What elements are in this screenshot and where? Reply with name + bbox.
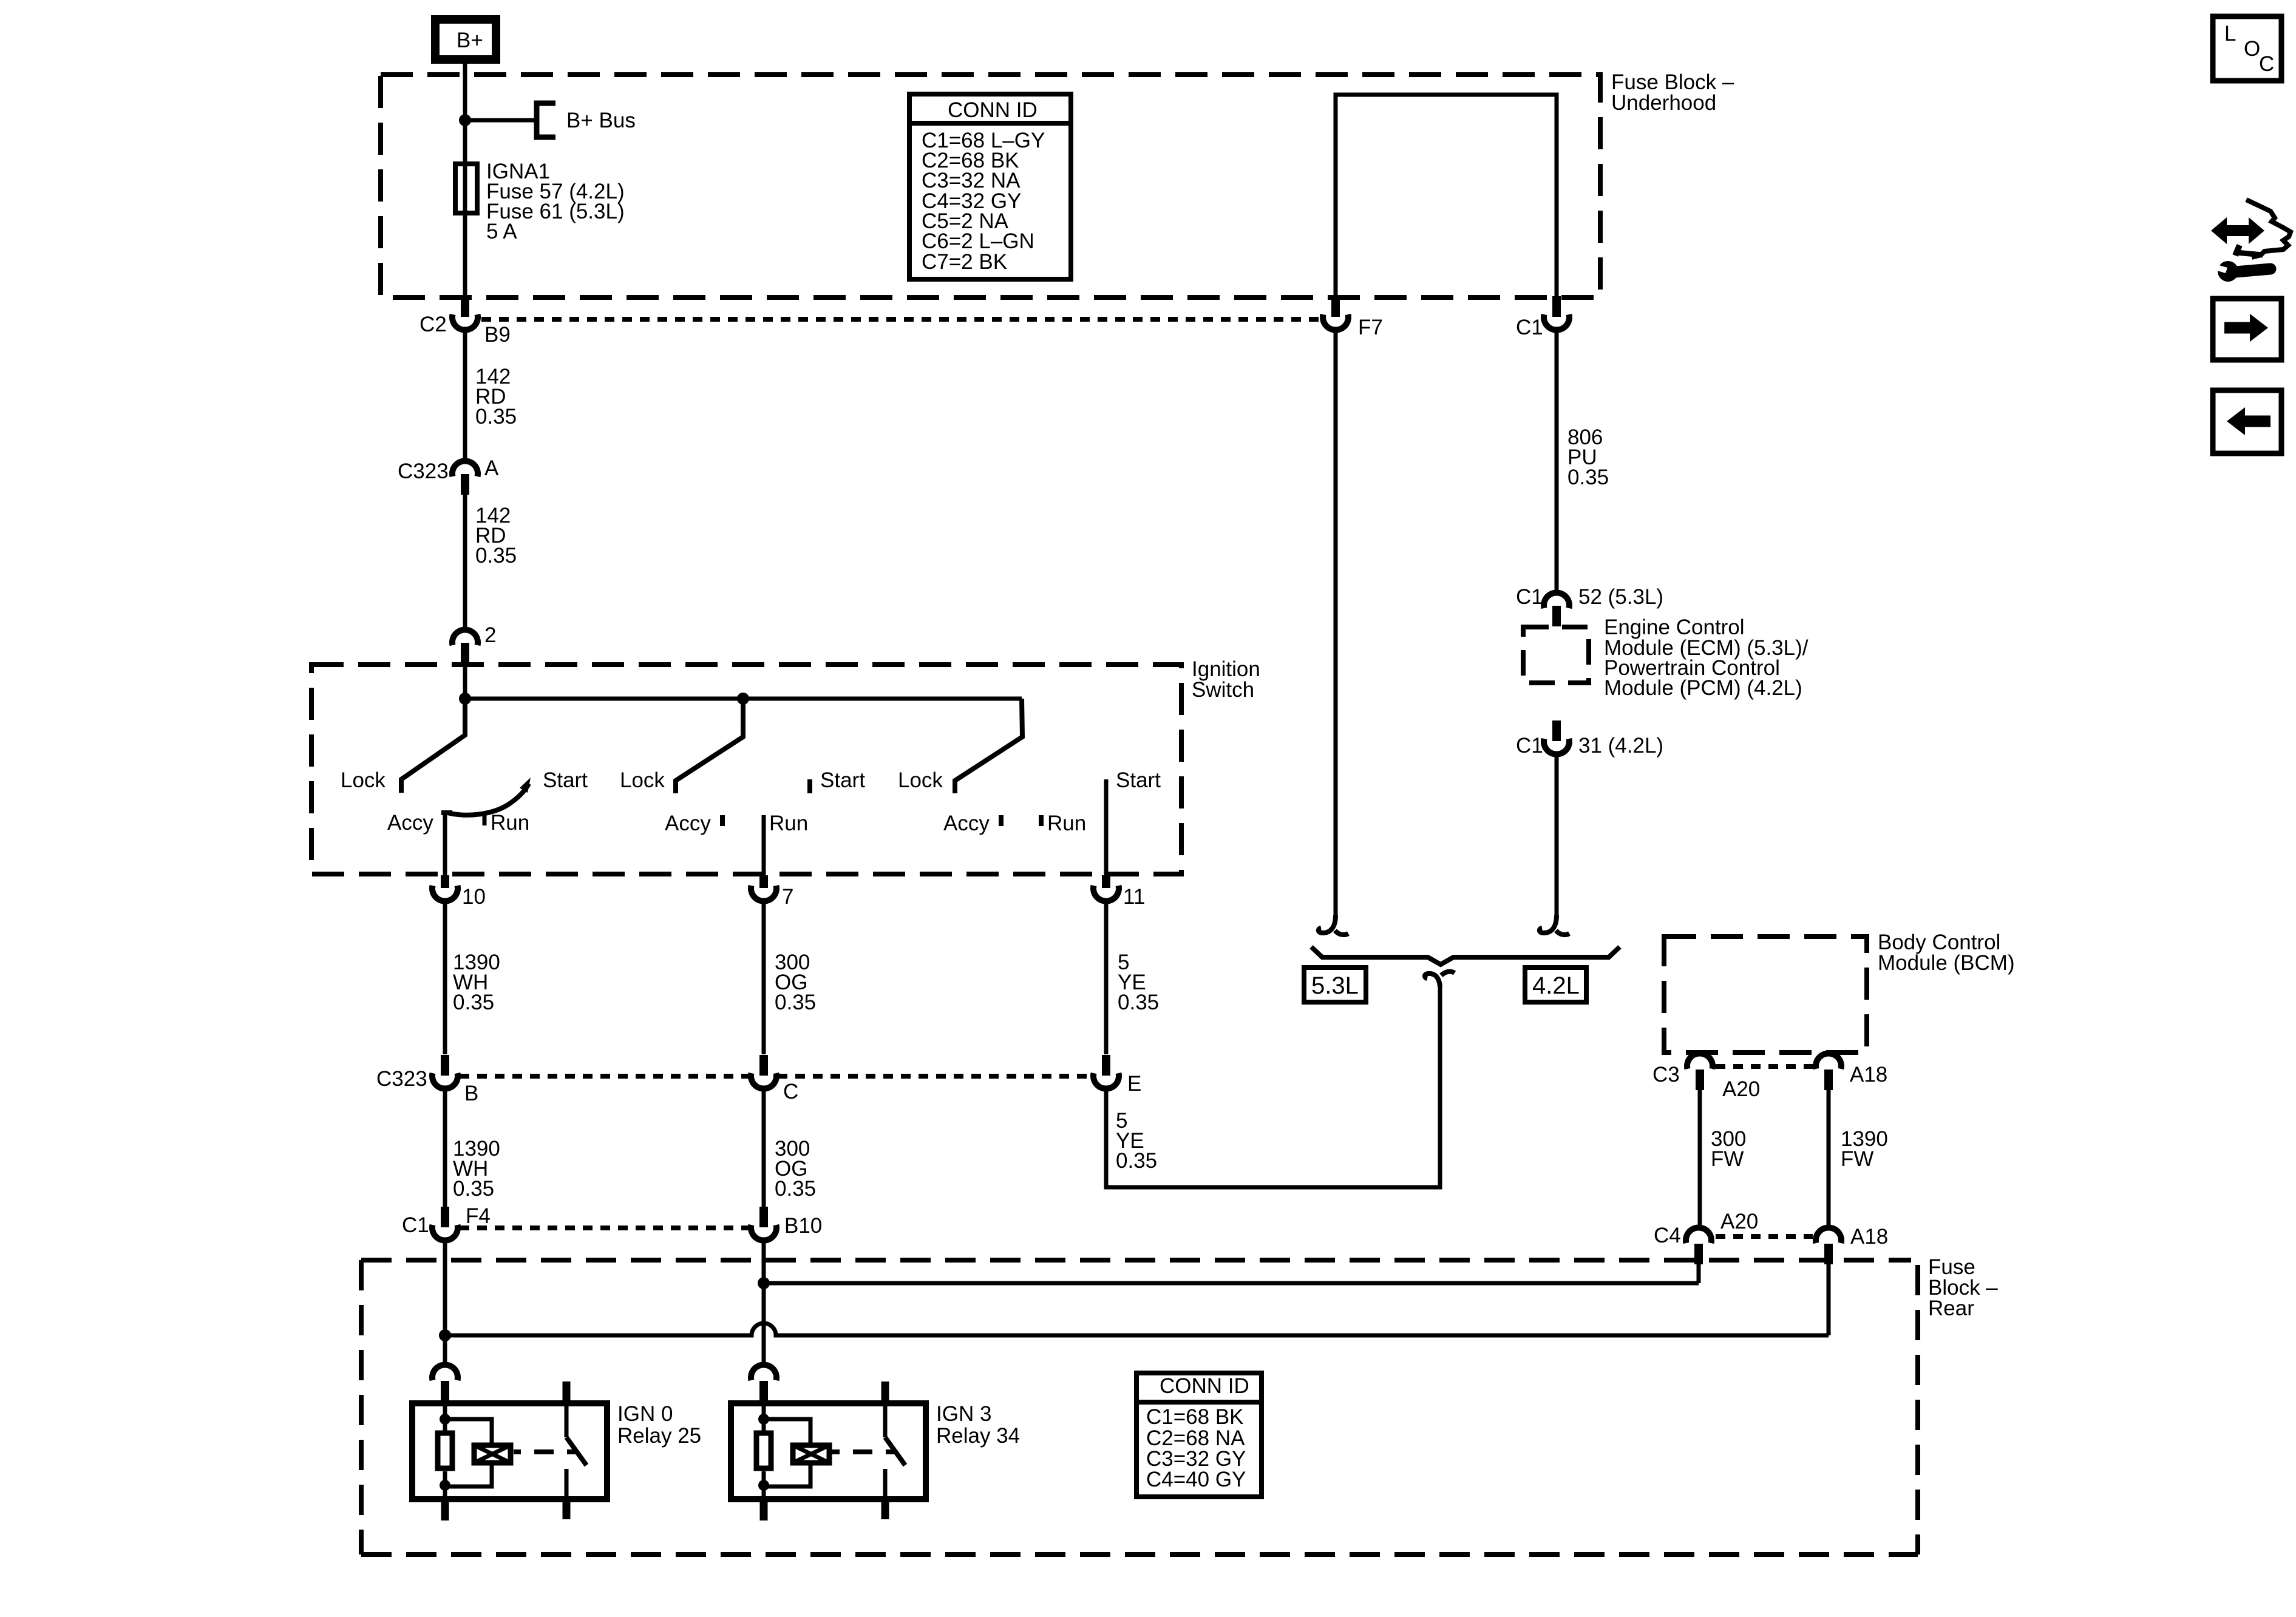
switch blade section 3 bbox=[955, 699, 1022, 793]
svg-text:0.35: 0.35 bbox=[775, 991, 816, 1014]
svg-text:10: 10 bbox=[462, 885, 486, 909]
svg-text:Lock: Lock bbox=[341, 768, 385, 792]
svg-text:Relay 25: Relay 25 bbox=[617, 1424, 701, 1448]
svg-text:Underhood: Underhood bbox=[1611, 91, 1716, 115]
connector C2 pin B9 bbox=[419, 296, 511, 347]
switch contact relay 25 bbox=[563, 1381, 571, 1401]
svg-text:CONN ID: CONN ID bbox=[948, 98, 1038, 122]
node relay 34 bottom junction bbox=[758, 1480, 769, 1491]
wire C1 down to ECM bbox=[1555, 330, 1559, 591]
svg-text:C: C bbox=[783, 1080, 798, 1103]
power symbol B+ bbox=[435, 19, 496, 59]
node relay 25 bottom junction bbox=[440, 1480, 450, 1491]
node relay 25 top junction bbox=[440, 1414, 450, 1425]
wire relay 25 resistor bottom bbox=[443, 1471, 447, 1502]
wire F4 tail to relay feed bbox=[443, 1240, 447, 1365]
label IGN 3 Relay 34 bbox=[936, 1402, 1020, 1448]
switch blade section 1 bbox=[401, 699, 465, 793]
svg-text:A18: A18 bbox=[1850, 1063, 1887, 1086]
coil relay 25 bbox=[474, 1445, 511, 1463]
ignition switch box bbox=[311, 665, 1181, 874]
resistor relay 25 bbox=[438, 1433, 452, 1468]
svg-text:Accy: Accy bbox=[665, 812, 711, 835]
wire into ignition switch bbox=[463, 663, 467, 699]
wire F7 down to brace bbox=[1334, 330, 1338, 918]
B+ bus terminal symbol bbox=[537, 103, 555, 137]
svg-text:A: A bbox=[484, 456, 499, 480]
contact tick Start section 2 bbox=[807, 779, 812, 793]
label 300 OG 0.35 upper bbox=[775, 951, 816, 1014]
svg-text:C1: C1 bbox=[1516, 734, 1543, 758]
label Body Control Module bbox=[1878, 931, 2015, 975]
wire fuse block internal F7 to C1 bbox=[1336, 95, 1557, 296]
labels switch section 2 bbox=[620, 768, 865, 835]
connector C323 pin B bbox=[376, 1055, 478, 1105]
svg-text:0.35: 0.35 bbox=[453, 1177, 494, 1201]
svg-text:0.35: 0.35 bbox=[775, 1177, 816, 1201]
connector C1 pin 31 ECM bbox=[1516, 720, 1663, 758]
svg-text:Start: Start bbox=[820, 768, 865, 792]
labels switch section 3 bbox=[898, 768, 1161, 835]
svg-text:C1: C1 bbox=[1516, 316, 1543, 339]
switch blade section 2 bbox=[676, 699, 743, 793]
node junction B+ bus tap bbox=[459, 114, 471, 126]
svg-text:Lock: Lock bbox=[898, 768, 943, 792]
wire switch output Accy section 1 bbox=[443, 812, 447, 876]
loc reference box icon bbox=[2213, 16, 2281, 81]
svg-text:Start: Start bbox=[1116, 768, 1161, 792]
wire relay 34 coil branch top bbox=[762, 1402, 766, 1432]
wire 1390 WH upper bbox=[443, 901, 447, 1054]
wire relay 34 resistor bottom bbox=[762, 1471, 766, 1502]
svg-text:4.2L: 4.2L bbox=[1532, 972, 1580, 999]
wire relay 34 coil parallel branch bbox=[764, 1419, 810, 1445]
connector row dotted line C4 to A18 bbox=[1716, 1234, 1813, 1239]
connector C323 pin C bbox=[751, 1055, 798, 1103]
relay 34 box bbox=[731, 1403, 926, 1499]
wire A18 to bus bbox=[1827, 1264, 1831, 1335]
body control module box bbox=[1664, 937, 1867, 1053]
fuse block underhood box bbox=[381, 75, 1600, 297]
svg-text:B+ Bus: B+ Bus bbox=[566, 109, 636, 132]
svg-text:Switch: Switch bbox=[1192, 678, 1254, 702]
svg-text:B9: B9 bbox=[484, 323, 511, 347]
connector C1 pin 52 ECM bbox=[1516, 585, 1663, 626]
svg-text:0.35: 0.35 bbox=[1567, 466, 1609, 489]
contact tick Accy section 2 bbox=[720, 815, 725, 826]
svg-text:Run: Run bbox=[769, 812, 808, 835]
wire 142 RD 0.35 lower bbox=[463, 495, 467, 627]
coil relay 34 bbox=[793, 1445, 829, 1463]
svg-text:52 (5.3L): 52 (5.3L) bbox=[1578, 585, 1663, 609]
svg-text:C1: C1 bbox=[402, 1213, 429, 1237]
contact tick Run section 3 bbox=[1039, 815, 1044, 826]
label 1390 WH 0.35 lower bbox=[453, 1137, 500, 1201]
svg-text:31 (4.2L): 31 (4.2L) bbox=[1578, 734, 1663, 758]
svg-text:2: 2 bbox=[484, 623, 496, 647]
CONN ID table rear bbox=[1136, 1373, 1262, 1497]
svg-text:C4: C4 bbox=[1654, 1224, 1681, 1247]
wire C1 31 down to brace bbox=[1555, 754, 1559, 918]
label 5 YE 0.35 upper bbox=[1118, 951, 1159, 1014]
svg-text:F4: F4 bbox=[466, 1204, 491, 1228]
contact tick Run section 1 bbox=[483, 813, 487, 825]
svg-text:B+: B+ bbox=[457, 29, 483, 52]
connector A18 rear fuse block bbox=[1816, 1225, 1888, 1264]
svg-text:Run: Run bbox=[1047, 812, 1086, 835]
resistor relay 34 bbox=[756, 1433, 771, 1468]
wire switch feed bus bbox=[465, 697, 1022, 701]
contact tick Accy section 3 bbox=[999, 815, 1004, 826]
connector C1 pin F4 bbox=[402, 1204, 491, 1241]
node switch bus junction 2 bbox=[737, 693, 749, 705]
wire B+ to fuse to C2 bbox=[463, 64, 467, 296]
svg-text:Relay 34: Relay 34 bbox=[936, 1424, 1020, 1448]
svg-text:C1: C1 bbox=[1516, 585, 1543, 609]
svg-text:Module (PCM) (4.2L): Module (PCM) (4.2L) bbox=[1604, 676, 1802, 700]
label 300 OG 0.35 lower bbox=[775, 1137, 816, 1201]
label 300 FW bbox=[1711, 1127, 1746, 1171]
svg-text:Module (BCM): Module (BCM) bbox=[1878, 951, 2015, 975]
svg-text:B10: B10 bbox=[784, 1214, 822, 1238]
wire hook F7 end bbox=[1319, 915, 1348, 935]
svg-text:A18: A18 bbox=[1850, 1225, 1888, 1249]
wire relay 25 coil bottom stub bbox=[441, 1502, 449, 1520]
wire relay 25 coil branch top bbox=[443, 1402, 447, 1432]
wire 300 OG upper bbox=[762, 901, 766, 1054]
svg-text:C323: C323 bbox=[376, 1067, 427, 1091]
svg-text:CONN ID: CONN ID bbox=[1160, 1374, 1249, 1398]
svg-text:FW: FW bbox=[1841, 1147, 1873, 1171]
connector A18 BCM bbox=[1816, 1053, 1887, 1090]
connector relay 34 coil feed bbox=[751, 1364, 776, 1402]
svg-text:A20: A20 bbox=[1722, 1077, 1760, 1101]
connector row dotted line C3 to A18 bbox=[1716, 1064, 1813, 1069]
wire relay 25 coil parallel branch bbox=[445, 1419, 492, 1445]
label Engine Control Module bbox=[1604, 615, 1809, 700]
svg-text:5 A: 5 A bbox=[486, 220, 517, 243]
wire switch output Run section 2 bbox=[762, 815, 766, 876]
label fuse IGNA1 values bbox=[486, 160, 625, 243]
svg-text:C1=68 BK: C1=68 BK bbox=[1146, 1405, 1244, 1429]
connector C3 BCM bbox=[1652, 1053, 1713, 1090]
svg-text:C7=2 BK: C7=2 BK bbox=[922, 250, 1007, 274]
svg-text:5.3L: 5.3L bbox=[1311, 972, 1359, 999]
svg-text:0.35: 0.35 bbox=[1116, 1149, 1157, 1173]
label box 5.3L bbox=[1304, 968, 1366, 1002]
label IGN 0 Relay 25 bbox=[617, 1402, 701, 1448]
engine control module box bbox=[1523, 627, 1589, 683]
label 806 PU 0.35 bbox=[1567, 425, 1609, 489]
label 142 RD 0.35 upper bbox=[475, 365, 517, 429]
svg-text:E: E bbox=[1127, 1072, 1141, 1096]
connector C1 underhood bbox=[1516, 296, 1569, 339]
svg-text:L: L bbox=[2224, 22, 2236, 46]
wire hook C1 end bbox=[1540, 915, 1569, 935]
svg-text:C: C bbox=[2259, 52, 2274, 76]
engine select brace bbox=[1311, 947, 1620, 964]
svg-text:Start: Start bbox=[543, 768, 588, 792]
connector row dotted line C2 to F7 bbox=[481, 317, 1321, 322]
node junction IGN3 relay feed bbox=[758, 1277, 770, 1289]
connector pin 10 bbox=[432, 875, 486, 909]
labels switch section 1 bbox=[341, 768, 588, 835]
svg-text:0.35: 0.35 bbox=[453, 991, 494, 1014]
CONN ID table underhood bbox=[909, 94, 1071, 279]
svg-text:C323: C323 bbox=[398, 459, 449, 483]
connector pin 2 bbox=[452, 623, 496, 663]
wire bus from A18 to IGN0 relay with hop bbox=[445, 1323, 1829, 1335]
connector C323 pin E bbox=[1093, 1055, 1141, 1096]
svg-text:Accy: Accy bbox=[387, 811, 433, 835]
label 5 YE 0.35 lower bbox=[1116, 1109, 1157, 1173]
svg-text:0.35: 0.35 bbox=[1118, 991, 1159, 1014]
fuse IGNA1 bbox=[455, 164, 477, 213]
connector row dotted line C323 B to C bbox=[460, 1074, 750, 1079]
connector C323 pin A bbox=[398, 456, 499, 495]
label 142 RD 0.35 lower bbox=[475, 504, 517, 568]
svg-text:Accy: Accy bbox=[943, 812, 990, 835]
connector pin 11 bbox=[1093, 875, 1145, 909]
wire E to engine select brace bbox=[1106, 985, 1440, 1187]
wire bus from C4 A20 to IGN3 relay bbox=[764, 1281, 1699, 1286]
label 1390 FW bbox=[1841, 1127, 1888, 1171]
wire 1390 WH lower bbox=[443, 1088, 447, 1207]
adjust tools icon bbox=[2211, 200, 2291, 282]
svg-text:0.35: 0.35 bbox=[475, 544, 517, 568]
fuse block rear box bbox=[361, 1260, 1918, 1554]
label Fuse Block - Rear bbox=[1928, 1255, 1998, 1320]
svg-text:IGN 3: IGN 3 bbox=[936, 1402, 991, 1426]
back arrow icon bbox=[2213, 390, 2281, 453]
relay 25 box bbox=[412, 1403, 607, 1499]
label box 4.2L bbox=[1525, 968, 1586, 1002]
node relay 34 top junction bbox=[758, 1414, 769, 1425]
connector F7 bbox=[1323, 296, 1383, 339]
wire 300 FW bbox=[1698, 1090, 1702, 1227]
node switch bus junction 1 bbox=[459, 693, 471, 705]
wire B+ bus tap bbox=[465, 118, 537, 123]
switch contact relay 34 bbox=[881, 1381, 889, 1401]
label Fuse Block - Underhood bbox=[1611, 70, 1734, 115]
wire relay 34 coil bottom stub bbox=[760, 1502, 768, 1520]
connector row dotted line C323 C to E bbox=[778, 1074, 1092, 1079]
svg-text:B: B bbox=[464, 1082, 478, 1105]
svg-text:A20: A20 bbox=[1720, 1210, 1758, 1233]
svg-text:7: 7 bbox=[782, 885, 793, 909]
svg-text:O: O bbox=[2244, 37, 2260, 61]
svg-text:C3: C3 bbox=[1652, 1063, 1680, 1086]
svg-text:IGN 0: IGN 0 bbox=[617, 1402, 673, 1426]
wire 5 YE upper bbox=[1104, 901, 1109, 1054]
wire 142 RD 0.35 upper bbox=[463, 330, 467, 459]
svg-text:C2: C2 bbox=[419, 313, 447, 336]
wire B10 tail to relay feed bbox=[762, 1240, 766, 1365]
wire hook brace center bbox=[1425, 972, 1455, 987]
label Ignition Switch bbox=[1192, 657, 1260, 702]
forward arrow icon bbox=[2213, 299, 2281, 360]
wire switch output Start section 3 bbox=[1104, 779, 1109, 876]
svg-text:Run: Run bbox=[491, 811, 529, 835]
node junction IGN0 relay feed bbox=[439, 1329, 451, 1341]
svg-text:11: 11 bbox=[1123, 885, 1145, 909]
svg-text:C4=40 GY: C4=40 GY bbox=[1146, 1468, 1246, 1491]
connector C4 rear fuse block bbox=[1654, 1210, 1758, 1264]
wire 300 OG lower bbox=[762, 1088, 766, 1207]
rotary motion arc with arrow section 1 bbox=[441, 784, 529, 815]
svg-text:Lock: Lock bbox=[620, 768, 665, 792]
wire C4 to bus bbox=[1697, 1264, 1701, 1283]
label 1390 WH 0.35 upper bbox=[453, 951, 500, 1014]
svg-text:0.35: 0.35 bbox=[475, 405, 517, 429]
svg-text:Rear: Rear bbox=[1928, 1297, 1974, 1320]
actuation dashed link relay 25 bbox=[514, 1449, 521, 1454]
svg-text:F7: F7 bbox=[1358, 316, 1383, 339]
connector pin 7 bbox=[751, 875, 793, 909]
connector pin B10 bbox=[751, 1207, 822, 1241]
connector relay 25 coil feed bbox=[432, 1364, 458, 1402]
actuation dashed link relay 34 bbox=[829, 1449, 840, 1454]
connector row dotted line F4 to B10 bbox=[460, 1225, 750, 1230]
wire 1390 FW bbox=[1827, 1090, 1831, 1227]
svg-text:FW: FW bbox=[1711, 1147, 1744, 1171]
